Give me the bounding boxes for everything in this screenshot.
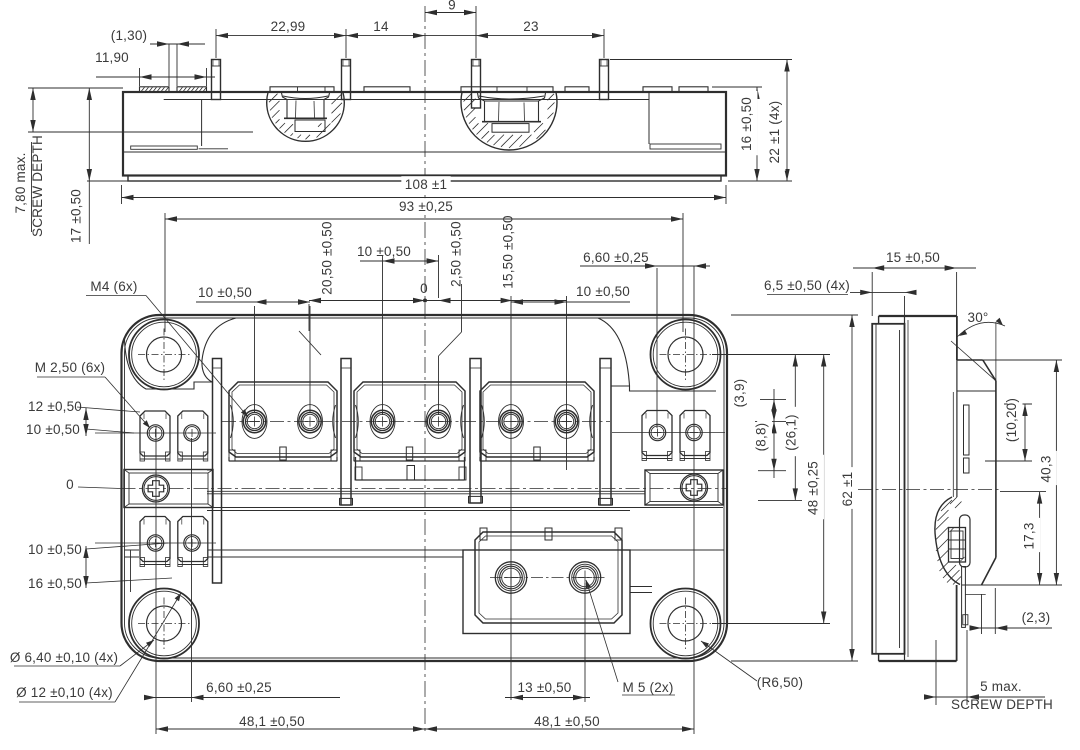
svg-text:10 ±0,50: 10 ±0,50	[26, 422, 80, 437]
svg-text:5 max.: 5 max.	[980, 679, 1022, 694]
svg-text:(10,20): (10,20)	[1004, 398, 1019, 442]
svg-text:M 5 (2x): M 5 (2x)	[622, 680, 673, 695]
svg-text:16 ±0,50: 16 ±0,50	[739, 97, 754, 151]
svg-text:20,50 ±0,50: 20,50 ±0,50	[320, 221, 335, 294]
svg-text:(26,1): (26,1)	[783, 414, 798, 450]
svg-text:108 ±1: 108 ±1	[405, 177, 447, 192]
svg-text:(R6,50): (R6,50)	[757, 675, 803, 690]
svg-text:62 ±1: 62 ±1	[840, 472, 855, 507]
svg-text:17,3: 17,3	[1022, 522, 1037, 549]
svg-text:15 ±0,50: 15 ±0,50	[886, 250, 940, 265]
svg-text:22 ±1 (4x): 22 ±1 (4x)	[767, 101, 782, 164]
svg-text:14: 14	[373, 19, 389, 34]
svg-text:SCREW DEPTH: SCREW DEPTH	[951, 697, 1053, 712]
svg-text:M 2,50 (6x): M 2,50 (6x)	[35, 360, 105, 375]
svg-text:10 ±0,50: 10 ±0,50	[357, 244, 411, 259]
svg-text:6,5 ±0,50 (4x): 6,5 ±0,50 (4x)	[764, 278, 850, 293]
svg-text:48 ±0,25: 48 ±0,25	[806, 461, 821, 515]
svg-text:0: 0	[420, 281, 428, 296]
svg-text:40,3: 40,3	[1038, 455, 1053, 482]
svg-text:10 ±0,50: 10 ±0,50	[576, 284, 630, 299]
svg-text:(2,3): (2,3)	[1022, 610, 1051, 625]
svg-text:17 ±0,50: 17 ±0,50	[69, 189, 84, 243]
svg-text:11,90: 11,90	[95, 50, 129, 65]
svg-text:13 ±0,50: 13 ±0,50	[517, 680, 571, 695]
svg-text:2,50 ±0,50: 2,50 ±0,50	[449, 221, 464, 287]
svg-text:Ø 12 ±0,10 (4x): Ø 12 ±0,10 (4x)	[16, 685, 113, 700]
svg-text:(8,8): (8,8)	[754, 423, 769, 452]
svg-text:16 ±0,50: 16 ±0,50	[28, 576, 82, 591]
svg-text:0: 0	[66, 477, 74, 492]
svg-text:6,60 ±0,25: 6,60 ±0,25	[583, 250, 649, 265]
svg-text:M4 (6x): M4 (6x)	[90, 279, 137, 294]
svg-text:10 ±0,50: 10 ±0,50	[28, 542, 82, 557]
svg-text:48,1 ±0,50: 48,1 ±0,50	[534, 714, 600, 729]
svg-text:22,99: 22,99	[271, 19, 306, 34]
svg-text:SCREW DEPTH: SCREW DEPTH	[30, 135, 45, 237]
svg-text:7,80 max.: 7,80 max.	[13, 152, 28, 213]
svg-text:93 ±0,25: 93 ±0,25	[399, 199, 453, 214]
svg-text:30°: 30°	[967, 310, 988, 325]
svg-text:12 ±0,50: 12 ±0,50	[28, 399, 82, 414]
svg-text:(1,30): (1,30)	[111, 28, 147, 43]
svg-text:48,1 ±0,50: 48,1 ±0,50	[239, 714, 305, 729]
svg-text:(3,9): (3,9)	[732, 379, 747, 408]
svg-text:Ø 6,40 ±0,10 (4x): Ø 6,40 ±0,10 (4x)	[10, 650, 118, 665]
svg-text:6,60 ±0,25: 6,60 ±0,25	[206, 680, 272, 695]
svg-text:10 ±0,50: 10 ±0,50	[198, 285, 252, 300]
svg-text:23: 23	[523, 19, 538, 34]
svg-text:15,50 ±0,50: 15,50 ±0,50	[501, 215, 516, 288]
svg-text:9: 9	[448, 0, 456, 13]
